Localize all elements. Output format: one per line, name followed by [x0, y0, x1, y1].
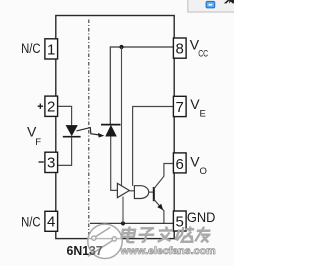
wire photodiode to amplifier input: [111, 136, 118, 190]
browser toolbar panel top right: [188, 0, 235, 12]
junction dot on VCC rail: [119, 45, 123, 49]
pin 5 box: [173, 211, 186, 231]
svg-text:F: F: [35, 137, 41, 148]
light arrow from LED to photodiode: [77, 128, 99, 135]
svg-text:4: 4: [47, 214, 55, 231]
pin7 enable wire: [133, 107, 174, 186]
svg-text:N/C: N/C: [21, 214, 41, 229]
partial dark glyph: [224, 0, 234, 3]
svg-text:7: 7: [176, 99, 184, 116]
LED D1 (emitter diode): [66, 125, 77, 135]
wire buffer to gate: [129, 190, 134, 192]
watermark logo circle: [88, 224, 122, 258]
svg-text:8: 8: [176, 41, 184, 58]
pin 2 box: [45, 96, 58, 116]
svg-text:3: 3: [47, 155, 55, 172]
svg-text:GND: GND: [187, 209, 216, 225]
pin 7 box: [173, 96, 186, 116]
pin 1 box: [45, 39, 58, 59]
top VCC rail from pin 8: [110, 47, 173, 124]
photodiode cathode bar: [101, 124, 121, 126]
LED cathode bar: [63, 136, 81, 138]
junction dot on GND rail: [121, 221, 125, 225]
IC body outline 6N137 package: [56, 16, 174, 239]
svg-text:6: 6: [176, 156, 184, 173]
svg-text:2: 2: [47, 99, 55, 116]
amplifier buffer triangle U1a: [117, 183, 129, 197]
GND rail to pin 5: [90, 222, 173, 224]
svg-text:www.elecfans.com: www.elecfans.com: [120, 245, 216, 257]
blue image icon: [206, 1, 215, 7]
pin 4 box: [45, 211, 58, 231]
label - pin3: [39, 161, 44, 163]
wire LED cathode to pin3: [58, 137, 72, 166]
svg-text:N/C: N/C: [21, 41, 41, 56]
watermark chinese characters (stylised): [121, 227, 212, 243]
transistor emitter with arrow: [154, 199, 164, 223]
isolation barrier dash-dot line: [88, 20, 90, 239]
svg-text:E: E: [200, 109, 206, 120]
svg-text:CC: CC: [198, 49, 208, 60]
AND gate U1b: [134, 186, 148, 199]
svg-text:1: 1: [47, 41, 55, 58]
label + pin2: [38, 104, 43, 109]
transistor Q1 base bar: [153, 187, 155, 201]
transistor collector to pin 6: [154, 164, 174, 189]
wire amplifier ground down to rail: [122, 197, 124, 224]
wire pin2 to LED anode: [58, 106, 72, 125]
wire gate to transistor base: [149, 191, 154, 193]
pin 8 box: [173, 38, 186, 58]
wire VCC dot down to amplifier top: [121, 47, 123, 186]
pin 6 box: [173, 153, 186, 173]
svg-text:37: 37: [89, 244, 103, 258]
svg-text:O: O: [200, 166, 207, 177]
photodiode D2: [106, 126, 117, 137]
pin 3 box: [45, 152, 58, 172]
